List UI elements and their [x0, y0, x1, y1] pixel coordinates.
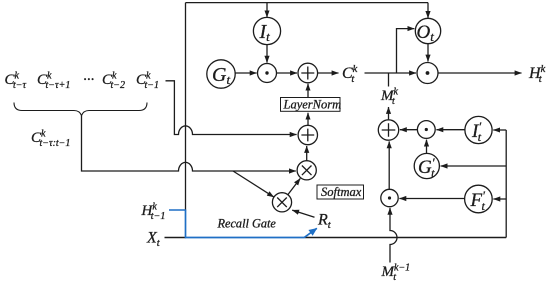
wire adder3 up to LayerNorm: [307, 113, 309, 125]
wire rail to F'_t: [493, 198, 506, 200]
svg-text:Ot: Ot: [417, 22, 435, 44]
operator adder3: [298, 125, 317, 144]
wire multiplier2 to multiplier1: [288, 178, 300, 194]
svg-text:Xt: Xt: [146, 230, 161, 250]
wire right rail from bottom input line: [505, 130, 507, 238]
operator hadamard1 (elementwise product): [258, 64, 277, 83]
svg-text:F′t: F′t: [470, 188, 486, 213]
gate circle O_t: [415, 18, 440, 44]
svg-text:Hkt: Hkt: [528, 64, 546, 85]
wire top feed line to gates: [186, 2, 429, 4]
wire LayerNorm up to adder1: [307, 84, 309, 98]
underbrace grouping memory cells: [14, 103, 147, 116]
wire blue riser and bottom segment to recall arrow: [186, 210, 305, 238]
wire blue recall-gate arrow to R_t: [305, 228, 317, 237]
svg-text:Recall Gate: Recall Gate: [217, 217, 277, 231]
wire R_t to multiplier2: [292, 210, 314, 217]
wire drop into O_t: [427, 3, 429, 18]
wire M_t^k junction link to main line: [388, 73, 390, 87]
wire hadamard2 to adder2: [400, 129, 417, 131]
wire O_t to output hadamard: [427, 44, 429, 62]
svg-text:Softmax: Softmax: [321, 185, 362, 199]
wire I'_t to hadamard2: [436, 129, 464, 131]
operator hadamard3 (forget x M_prev): [381, 189, 398, 206]
wire branch up into O_t: [397, 29, 415, 73]
svg-text:Ckt−1: Ckt−1: [136, 71, 159, 92]
wire input riser (concatenated H,X up the left side): [185, 3, 187, 211]
operator output hadamard: [417, 63, 438, 84]
svg-text:Ckt−τ:t−1: Ckt−τ:t−1: [31, 129, 70, 150]
wire F'_t to hadamard3: [399, 198, 464, 200]
wire hadamard3 to adder2: [388, 141, 390, 189]
wire I_t to hadamard1: [266, 45, 268, 63]
gate circle I_t: [253, 17, 280, 44]
svg-text:Rt: Rt: [317, 212, 332, 232]
wire G_t to hadamard1: [235, 72, 256, 74]
wire rail to G'_t: [441, 165, 507, 167]
operator adder2 (memory merge): [378, 120, 398, 140]
operator hadamard2 (I' x G'): [417, 121, 435, 139]
wire G'_t to hadamard2: [426, 140, 428, 154]
svg-text:Ckt: Ckt: [342, 64, 358, 85]
svg-text:Mkt: Mkt: [380, 87, 399, 108]
node memory sequence labels C_t-tau..C_t-1: [5, 71, 160, 92]
wire multiplier1 up to adder3: [306, 146, 308, 161]
operator multiplier2 (recall attention): [272, 193, 291, 212]
operator multiplier1 (softmax product): [297, 161, 316, 180]
svg-text:···: ···: [83, 72, 94, 88]
wire X_t tick: [165, 237, 187, 239]
wire adder2 up to M_t^k: [388, 107, 390, 119]
svg-text:Gt: Gt: [212, 64, 230, 87]
wire diagonal branch to multiplier2: [233, 171, 274, 197]
wire M_t^k-1 rising line with hop over input line: [390, 208, 397, 263]
wire brace stem down and right with hop, into multiplier1: [82, 116, 296, 172]
svg-text:Mk−1t: Mk−1t: [381, 263, 411, 283]
svg-text:LayerNorm: LayerNorm: [283, 98, 342, 112]
block LayerNorm: [281, 98, 342, 112]
wire rail to I'_t: [493, 129, 506, 131]
wire drop into I_t: [266, 3, 268, 18]
svg-text:Ckt−2: Ckt−2: [102, 71, 125, 92]
svg-text:G′t: G′t: [418, 155, 435, 180]
block Softmax: [317, 185, 364, 199]
wire hadamard1 to adder1: [277, 72, 298, 74]
wire C_t-1 tap down and right with hop, into adder3: [166, 81, 297, 135]
gate circle G_t: [207, 60, 235, 88]
wire blue H_t-1 tick: [169, 209, 186, 211]
wire adder1 to C_t^k label: [318, 72, 339, 74]
operator adder1: [298, 63, 318, 83]
wire main cell line C to output hadamard: [365, 72, 417, 74]
svg-text:Ckt−τ+1: Ckt−τ+1: [37, 71, 70, 92]
gate circle I'_t: [465, 116, 492, 144]
svg-text:It: It: [259, 21, 271, 44]
svg-text:I′t: I′t: [471, 119, 482, 144]
gate circle F'_t: [465, 185, 493, 213]
svg-text:Ckt−τ: Ckt−τ: [5, 71, 27, 92]
gate circle G'_t: [414, 153, 439, 180]
wire output to H_t^k: [438, 72, 522, 74]
svg-text:Hkt−1: Hkt−1: [141, 202, 166, 223]
wire bottom input line black segment: [305, 237, 507, 239]
